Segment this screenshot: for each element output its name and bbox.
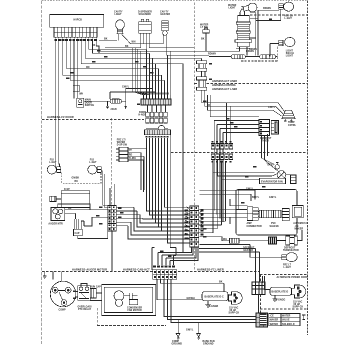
svg-text:CAV-TY: CAV-TY: [160, 10, 169, 13]
door switch plug pair upper: [197, 61, 207, 72]
cabinet connector bar A: [141, 99, 171, 105]
wire bundle v13: [169, 51, 171, 95]
svg-text:MAKER: MAKER: [295, 227, 304, 230]
svg-text:GROUND: GROUND: [203, 343, 214, 345]
amp connector strip: [247, 207, 258, 221]
svg-text:DOOR: DOOR: [139, 112, 146, 114]
aux cavity light wire RD-WH: [250, 9, 281, 55]
liner connector strip M column2: [194, 206, 199, 247]
svg-text:BK/YL: BK/YL: [252, 197, 260, 199]
svg-text:HARNESS-HCT L-NER: HARNESS-HCT L-NER: [212, 88, 238, 91]
ground symbol left margin: [43, 272, 47, 279]
automatic ice maker body: [292, 206, 303, 218]
svg-text:HVPCB: HVPCB: [74, 20, 83, 22]
dispenser aux component: [50, 196, 62, 201]
HVPCB pin labels row: [54, 39, 96, 41]
wire CN-YL vertical: [110, 89, 156, 109]
svg-text:GN/YL: GN/YL: [246, 188, 254, 190]
svg-text:BASEPLATE-D-C: BASEPLATE-D-C: [205, 296, 225, 299]
svg-text:GR/WH: GR/WH: [187, 298, 195, 300]
svg-text:RD/WH: RD/WH: [246, 51, 254, 53]
svg-text:SLEEVE: SLEEVE: [270, 226, 280, 228]
HVPCB connector J1 top row: [54, 27, 97, 32]
wire defrost heater feed: [199, 237, 229, 241]
svg-text:WATER: WATER: [228, 4, 237, 7]
svg-text:LIGHT: LIGHT: [229, 8, 237, 10]
harness boundary vertical center lower: [193, 247, 195, 272]
wire pin9 right bend: [85, 41, 201, 59]
auger connector strip L column2: [112, 206, 116, 232]
connector block N labels top: [212, 141, 232, 143]
page border top: [42, 0, 308, 2]
auger motor M2: [51, 208, 65, 221]
svg-text:CNTRL: CNTRL: [288, 125, 297, 127]
svg-text:9-GNGB: 9-GNGB: [209, 306, 219, 308]
harness boundary FZ light vertical: [110, 118, 112, 205]
block N pin dots: [212, 145, 232, 159]
wire pin10 right bend: [89, 41, 147, 50]
svg-text:GN/BK: GN/BK: [72, 178, 80, 180]
strip L pin dots: [109, 206, 115, 229]
comp ground wire: [178, 320, 199, 334]
center wire bundle verticals: [133, 48, 171, 95]
svg-text:115 VAC: 115 VAC: [229, 306, 239, 309]
wires strip M right runs: [199, 163, 260, 282]
terminal block hatched: [256, 313, 268, 327]
defrost heater R2: [230, 238, 240, 243]
pvc sleeve hatch bundle: [258, 210, 281, 218]
harness boundary vertical center: [193, 3, 195, 207]
svg-text:YL/BK: YL/BK: [129, 158, 136, 160]
svg-text:24GB: 24GB: [111, 108, 117, 111]
svg-text:HARNESS-CONTROL: HARNESS-CONTROL: [212, 84, 237, 87]
wire color legend block left: [260, 314, 267, 326]
wire RD-WH run with inline connectors: [205, 55, 277, 56]
wire pin7 to main door switch: [77, 41, 79, 99]
wire bundle v7: [152, 58, 154, 95]
page border left: [41, 1, 43, 344]
svg-text:CAP: CAP: [75, 232, 80, 235]
svg-text:ALTERNATE POWER CORD: ALTERNATE POWER CORD: [277, 276, 309, 279]
frz lt connector cells: [119, 147, 128, 161]
pin labels below bar C: [146, 136, 169, 138]
wires cavity heater leads: [131, 35, 206, 55]
svg-text:HARNESS-AUGER MOTOR: HARNESS-AUGER MOTOR: [72, 268, 107, 272]
cab-hct connector strip P row2: [153, 275, 177, 280]
evaporator fan label box: [260, 178, 286, 183]
HVPCB connector J1 bottom row: [54, 32, 97, 37]
svg-text:BK: BK: [104, 38, 108, 40]
svg-text:H-NGE: H-NGE: [139, 115, 147, 117]
svg-text:HEATER: HEATER: [244, 249, 254, 252]
wire bundle v11: [164, 80, 166, 95]
wire pin1 to FZ door light: [55, 41, 57, 167]
wire to temp control 3: [208, 95, 282, 116]
svg-text:CAVITY: CAVITY: [114, 10, 123, 13]
svg-text:WH: WH: [223, 239, 227, 241]
light switch light bulb DS4: [279, 37, 295, 46]
frz lt connector wire stubs: [116, 149, 144, 192]
svg-text:LIGHT: LIGHT: [286, 56, 294, 58]
wire to temp control 2: [205, 106, 283, 113]
svg-text:TSTAT: TSTAT: [267, 163, 275, 166]
wire door switch to LED: [84, 100, 110, 102]
wire pin11 right bend: [93, 41, 150, 54]
harness boundary HCT door dash-dot: [250, 14, 308, 16]
wires evaporator fan feeds: [213, 160, 278, 180]
svg-text:VALVE: VALVE: [282, 319, 290, 322]
svg-text:SOLENO-D: SOLENO-D: [282, 324, 295, 326]
compressor M3: [50, 281, 76, 307]
power cord plug head: [229, 292, 243, 304]
svg-text:DOOR: DOOR: [85, 102, 92, 104]
svg-text:L-GHT: L-GHT: [285, 18, 293, 20]
main door switch S1: [77, 98, 84, 107]
strip M labels right: [200, 210, 203, 236]
svg-text:LIGHT: LIGHT: [115, 14, 123, 16]
wire heater to terminator: [239, 240, 269, 242]
wire bundle v1: [133, 48, 143, 95]
svg-text:RD/WH: RD/WH: [208, 53, 216, 55]
wires door switch stack: [202, 58, 206, 106]
wire frz connector to bundle: [128, 149, 147, 190]
wire pin8 right bend: [81, 41, 183, 253]
svg-text:BK: BK: [125, 46, 129, 48]
temp control TC1: [282, 110, 295, 121]
power cord baseplate: [202, 292, 228, 301]
wire pin6 to main door switch: [73, 41, 75, 99]
legend T symbol: [302, 315, 306, 320]
wires control area horizontals: [202, 95, 285, 117]
wire bundle v9: [158, 69, 160, 95]
svg-text:COMP: COMP: [59, 309, 67, 311]
cavity light bulb DS1: [116, 20, 125, 34]
comp ground symbol: [176, 334, 180, 340]
wires N block up feeds: [227, 103, 231, 144]
ice maker pin strip: [282, 209, 289, 221]
defrost timer M1: [259, 120, 279, 136]
wires bundle bar C to strip M: [147, 135, 190, 248]
wire bundle v10: [161, 75, 163, 95]
base pan ground symbol: [197, 334, 201, 340]
aux cavity light bulb DS3: [279, 2, 294, 11]
svg-text:WATER: WATER: [282, 315, 291, 318]
svg-text:BK: BK: [219, 282, 223, 284]
svg-text:GN/YL: GN/YL: [186, 329, 194, 331]
svg-text:HARNESS-FZ LINER: HARNESS-FZ LINER: [197, 268, 224, 272]
strip P label ticks: [153, 265, 175, 267]
freezer liner enclosure box: [236, 190, 297, 236]
HVPCB pin tick row: [56, 37, 96, 39]
cabinet connector bar C: [145, 130, 171, 135]
harness boundary FZ door horizontal: [42, 119, 144, 121]
condenser fan motor M4: [114, 291, 138, 307]
wire bundle v3: [138, 49, 147, 95]
svg-text:SOLENOID: SOLENOID: [139, 14, 152, 16]
wire pin5 to main door switch: [70, 41, 164, 81]
connector pin labels above bar A: [143, 93, 169, 95]
svg-text:T-MER: T-MER: [262, 140, 270, 142]
wire LED ground stem: [106, 101, 109, 108]
svg-text:L-GHT: L-GHT: [89, 162, 97, 164]
harness boundary HCT liner horizontal: [194, 83, 307, 85]
connector block B row1: [146, 112, 167, 117]
strip M pin dots: [191, 207, 198, 245]
harness boundary alternate cord bottom: [260, 308, 308, 310]
alternate power cord baseplate: [270, 287, 292, 295]
wires into enclosure: [199, 190, 255, 224]
svg-text:WATER: WATER: [270, 323, 279, 326]
scattered wire color labels: [66, 50, 266, 299]
svg-text:WH: WH: [79, 94, 83, 96]
terminator inline fuse: [269, 237, 277, 244]
svg-text:HARNESS-CAB-HCT: HARNESS-CAB-HCT: [123, 268, 150, 272]
inline fuse on door wire: [73, 85, 79, 91]
wire pin3 right bend: [63, 41, 162, 75]
wire pin4 right bend: [67, 41, 159, 69]
wires compressor to relay: [76, 284, 102, 301]
wires water light leads: [240, 9, 245, 16]
connector block B row2: [146, 118, 167, 123]
starter relay box: [252, 282, 265, 295]
cavity heater R1: [162, 21, 168, 36]
grommet circle: [146, 125, 168, 132]
wires chute leads: [78, 184, 115, 272]
cab-hct connector strip P row1: [153, 270, 177, 275]
freezer light bulb DS5: [282, 253, 297, 262]
HVPCB board U1: [50, 15, 104, 28]
water lt switch S2: [203, 28, 209, 33]
wire bundle v6: [149, 53, 151, 95]
wires bar A to block B: [148, 105, 166, 112]
svg-text:HEATER: HEATER: [161, 13, 171, 16]
svg-text:L-GHT: L-GHT: [284, 267, 292, 269]
wires freezer light feed: [199, 230, 302, 257]
wires strip P down feeds: [157, 279, 256, 322]
svg-text:WATER: WATER: [117, 141, 126, 144]
evaporator fan motor B1: [277, 171, 286, 180]
svg-text:FAN MOTOR: FAN MOTOR: [128, 309, 142, 312]
svg-text:BK: BK: [92, 45, 96, 47]
svg-text:BR/WH: BR/WH: [249, 49, 257, 51]
inline connector pill 1: [231, 55, 245, 59]
auger connector strip L column1: [108, 206, 112, 232]
wires strip M entry diagonals: [185, 207, 203, 240]
wire fz light 2 down: [101, 171, 108, 208]
svg-text:BK: BK: [201, 39, 205, 41]
alternate cord feed wires: [263, 276, 271, 290]
connector block N row2: [211, 154, 232, 160]
svg-text:PTC RELAY: PTC RELAY: [78, 308, 92, 311]
water light bulb DS2: [241, 3, 257, 12]
wire bundle v12: [167, 55, 169, 95]
fan capacitor box: [286, 175, 296, 184]
ice chute solenoid: [74, 219, 85, 236]
door switch plug pair lower: [197, 77, 207, 91]
wire bundle v5: [146, 49, 148, 95]
svg-text:AUTOMAT-C: AUTOMAT-C: [293, 222, 307, 225]
connector block N row1: [211, 144, 232, 150]
page border right: [307, 1, 309, 335]
wires relay to terminal block: [258, 295, 260, 314]
wire color legend table: [269, 314, 300, 326]
harness boundary alternate cord vertical: [260, 275, 262, 314]
alternate cord plug head: [292, 285, 306, 298]
svg-text:BK: BK: [68, 208, 72, 210]
wire cavity light left: [99, 39, 117, 41]
svg-text:WATER: WATER: [200, 23, 209, 26]
harness boundary FZ liner mid horizontal: [171, 152, 308, 154]
inline connector pill 2: [260, 55, 276, 59]
harness boundary compressor bottom: [97, 325, 166, 327]
wire pin2 to FZ door light: [58, 41, 61, 167]
water valve FMV: [235, 16, 252, 49]
wires strip L right side: [116, 207, 190, 239]
wires defrost timer feeds: [214, 121, 259, 223]
dispenser solenoid L1: [139, 19, 152, 35]
strip M labels left: [185, 210, 188, 240]
svg-text:SWITCH: SWITCH: [85, 105, 95, 107]
wire bundle v8: [155, 64, 157, 95]
svg-text:OVERLOAD/: OVERLOAD/: [78, 305, 92, 308]
fz light 2 bulb: [88, 165, 101, 174]
svg-text:GN/YL: GN/YL: [269, 197, 277, 199]
svg-text:BK: BK: [75, 181, 79, 183]
connector pin ticks above bar A: [144, 95, 171, 99]
wires light switch light leads: [240, 44, 279, 62]
fz light 1 bulb: [47, 165, 60, 174]
svg-text:CONNECTOR: CONNECTOR: [247, 226, 263, 228]
svg-text:MAKER: MAKER: [270, 319, 279, 322]
wires cavity light leads: [118, 34, 140, 44]
run capacitor: [90, 289, 96, 299]
wire pin12 right bend: [96, 41, 99, 54]
svg-text:115 VAC: 115 VAC: [293, 300, 303, 303]
wires strip M bottom to cab connector: [152, 247, 198, 270]
svg-text:RD/WH: RD/WH: [263, 8, 271, 10]
strip P pin dots: [154, 271, 176, 278]
svg-text:-CE: -CE: [270, 316, 275, 318]
wires dispenser solenoid leads: [100, 35, 194, 51]
svg-text:CN/YL: CN/YL: [268, 107, 276, 109]
dispenser module box: [61, 191, 89, 208]
wire water lt switch lead: [146, 33, 206, 51]
svg-text:TERM-NATOR: TERM-NATOR: [283, 249, 299, 252]
wires auger motor leads: [58, 204, 108, 219]
svg-text:AUX CA: AUX CA: [284, 15, 293, 18]
defrost terminator body: [277, 236, 298, 245]
connector block N labels bottom: [212, 161, 232, 163]
svg-text:HARNESS-HCT LINER: HARNESS-HCT LINER: [212, 80, 237, 83]
harness boundary alternate cord top: [260, 274, 308, 276]
svg-text:AMP: AMP: [247, 222, 253, 225]
svg-text:RUN CAP: RUN CAP: [90, 285, 101, 288]
wire to defrost timer feed: [210, 95, 259, 117]
defrost timer pin dots: [260, 121, 262, 135]
harness boundary compressor vertical: [96, 308, 98, 326]
alarm LED module: [110, 99, 122, 103]
wires from HVPCB pins: [56, 40, 202, 252]
condenser fan outer box: [102, 285, 156, 316]
wire bundle v2: [135, 48, 145, 95]
dashed wire fz lights: [62, 173, 101, 184]
svg-text:GROUND: GROUND: [172, 343, 183, 345]
svg-text:D-SP SW: D-SP SW: [117, 145, 128, 147]
svg-text:BK: BK: [129, 150, 133, 152]
svg-text:CN/YL: CN/YL: [122, 87, 130, 89]
wires defrost timer to dashed: [262, 134, 278, 171]
wire ground drop alternate cord: [272, 295, 277, 301]
compressor feed wire: [53, 272, 62, 282]
svg-text:SUPP-CK: SUPP-CK: [229, 313, 240, 315]
svg-text:SUPP-CK: SUPP-CK: [293, 307, 304, 309]
wire bundle v4: [140, 51, 149, 95]
svg-text:WH: WH: [132, 42, 136, 44]
svg-text:EVAPORATOR FAN: EVAPORATOR FAN: [261, 180, 283, 183]
svg-text:BASE PAN: BASE PAN: [203, 340, 215, 343]
harness boundary bottom horizontal: [42, 271, 260, 273]
wire label BK: [269, 19, 272, 20]
overload protector: [78, 286, 90, 300]
wires water valve leads: [206, 38, 256, 55]
svg-text:BASEPLATE-D: BASEPLATE-D: [272, 291, 289, 294]
wire ground drop from cord: [205, 301, 211, 307]
liner connector strip M column1: [190, 206, 195, 247]
svg-text:L-GHT: L-GHT: [49, 162, 57, 164]
svg-text:HARNESS-FZ DOOR: HARNESS-FZ DOOR: [47, 115, 74, 119]
wire to temp control 1: [202, 103, 285, 112]
tstat sensor: [275, 163, 279, 170]
svg-text:AUGER MTR: AUGER MTR: [48, 222, 63, 225]
